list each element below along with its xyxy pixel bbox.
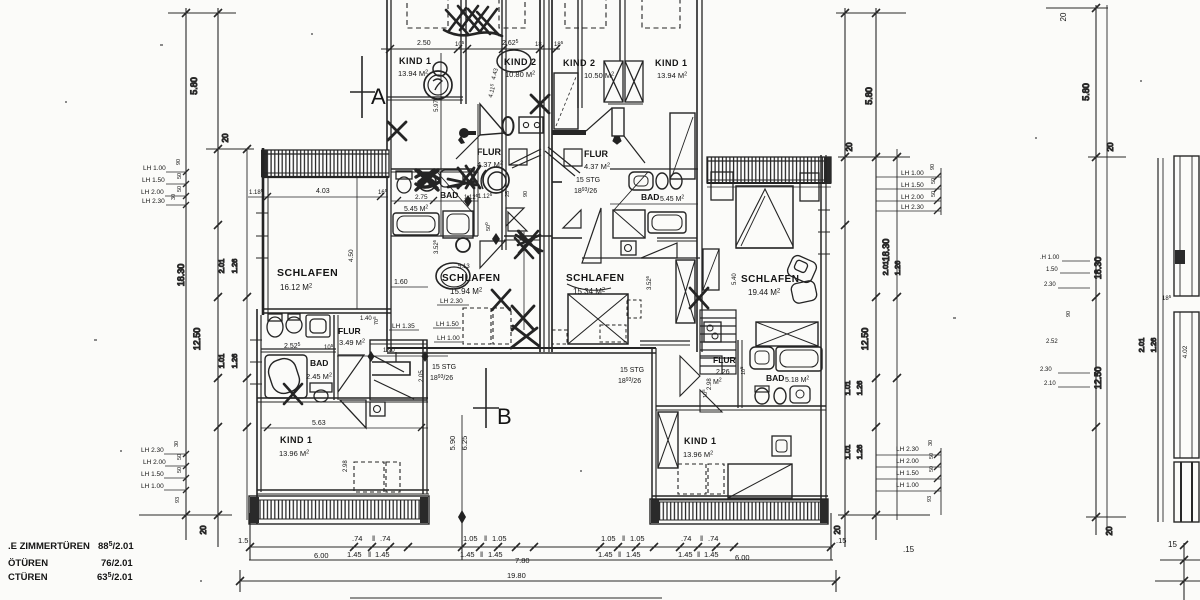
svg-text:50: 50 bbox=[177, 186, 183, 192]
svg-text:93: 93 bbox=[927, 496, 933, 502]
svg-text:2.05: 2.05 bbox=[419, 370, 425, 382]
label 15 STG left bbox=[430, 364, 456, 382]
dim line 1.60 bbox=[391, 286, 428, 288]
svg-text:50: 50 bbox=[177, 467, 183, 473]
svg-text:1.60: 1.60 bbox=[394, 279, 408, 286]
small cabinet w circle bbox=[621, 241, 636, 255]
dim line row 3 (19.80) bbox=[240, 580, 836, 582]
KIND1 bottom-left labels bbox=[279, 435, 313, 458]
stair right unit bbox=[700, 310, 736, 374]
svg-text:FLUR: FLUR bbox=[713, 355, 736, 365]
svg-text:105: 105 bbox=[455, 40, 465, 48]
mid tick crosses bbox=[214, 221, 251, 431]
wall y170 right bad bbox=[610, 168, 698, 170]
svg-text:BAD: BAD bbox=[440, 190, 458, 200]
svg-text:12.50: 12.50 bbox=[860, 328, 870, 351]
wall stairwell inner right bbox=[577, 0, 579, 108]
svg-text:FLUR: FLUR bbox=[584, 149, 608, 159]
label FLUR right bbox=[574, 149, 610, 195]
right wall KIND1 bl bbox=[422, 340, 424, 494]
tick crosses top bbox=[182, 9, 222, 17]
svg-text:1.125: 1.125 bbox=[478, 192, 493, 200]
wall fragment right edge: thin double vline bbox=[1157, 158, 1159, 522]
svg-text:SCHLAFEN: SCHLAFEN bbox=[442, 273, 500, 284]
circle fixture below bbox=[456, 238, 470, 252]
toilet bbox=[267, 317, 283, 337]
svg-text:705: 705 bbox=[372, 316, 380, 325]
svg-text:5.80: 5.80 bbox=[1081, 83, 1091, 101]
dashed bed KIND1 bl bbox=[354, 462, 400, 492]
svg-text:LH 2.30: LH 2.30 bbox=[896, 446, 919, 453]
door triangle into schlafen right bbox=[582, 208, 601, 263]
svg-text:1.05: 1.05 bbox=[601, 534, 616, 543]
svg-text:‖: ‖ bbox=[484, 534, 487, 543]
svg-text:4.02: 4.02 bbox=[1182, 345, 1189, 358]
bed 15.34 with X bbox=[568, 294, 628, 344]
horizontal wall stub right bbox=[608, 103, 643, 105]
dim line vertical 2 bbox=[875, 8, 877, 540]
labels below row1 bbox=[314, 550, 750, 580]
svg-text:BAD: BAD bbox=[766, 373, 784, 383]
left wall lower bbox=[256, 309, 258, 524]
svg-text:.74: .74 bbox=[708, 534, 718, 543]
svg-text:BAD: BAD bbox=[310, 358, 328, 368]
svg-text:2.45 M2: 2.45 M2 bbox=[306, 372, 332, 381]
svg-text:12.50: 12.50 bbox=[192, 328, 202, 351]
svg-text:LH 2.00: LH 2.00 bbox=[141, 189, 164, 196]
svg-text:3.49 M2: 3.49 M2 bbox=[339, 338, 365, 347]
label BAD 2.45 bbox=[306, 358, 332, 381]
balcony top-left railing bbox=[261, 150, 389, 177]
tick crosses row1 bbox=[246, 543, 835, 551]
dark knob bbox=[459, 128, 469, 138]
dashed bed 15.94 bbox=[463, 308, 511, 344]
svg-text:50: 50 bbox=[177, 173, 183, 179]
svg-text:1.45: 1.45 bbox=[488, 550, 503, 559]
interior dim line y197 bbox=[248, 196, 388, 198]
svg-text:76/2.01: 76/2.01 bbox=[101, 558, 133, 569]
door triangle right corridor bbox=[641, 243, 677, 258]
labels BAD right bbox=[641, 192, 684, 203]
svg-text:1.45: 1.45 bbox=[460, 550, 475, 559]
dim line row 4 partial bbox=[350, 597, 662, 599]
basin right bad bbox=[629, 172, 653, 190]
wall x740 between flur and bad bbox=[737, 340, 739, 408]
svg-text:.15: .15 bbox=[836, 536, 846, 545]
wall bad left top y170 bbox=[391, 168, 475, 170]
round basin bbox=[286, 317, 302, 333]
svg-text:KIND 1: KIND 1 bbox=[399, 56, 432, 66]
MAIN PLAN bbox=[248, 0, 831, 524]
scribble ellipse around SCH bbox=[436, 263, 470, 289]
vertical dim 5.90 6.25 with diamond bbox=[461, 415, 463, 513]
svg-text:LH 2.00: LH 2.00 bbox=[896, 458, 919, 465]
svg-text:B: B bbox=[497, 404, 512, 429]
right wall schlafen 19.44 bbox=[820, 155, 822, 352]
wall between bad and stairs x336 bbox=[333, 315, 335, 400]
svg-text:1.45: 1.45 bbox=[347, 550, 362, 559]
svg-text:BAD: BAD bbox=[641, 192, 659, 202]
basin bbox=[440, 170, 463, 187]
wall fragment: lower box bbox=[1174, 462, 1199, 522]
svg-text:.74: .74 bbox=[681, 534, 691, 543]
svg-text:18.30: 18.30 bbox=[1093, 257, 1103, 280]
svg-text:1.40: 1.40 bbox=[360, 316, 372, 322]
svg-text:5.80: 5.80 bbox=[189, 77, 199, 95]
svg-text:1.26: 1.26 bbox=[855, 381, 864, 396]
svg-text:KIND 1: KIND 1 bbox=[684, 436, 717, 446]
interior vertical dim 4.50 bbox=[356, 178, 358, 309]
svg-text:13.96 M2: 13.96 M2 bbox=[683, 450, 713, 459]
tub bad 5.18 bbox=[776, 347, 822, 371]
window ticks right wall bbox=[818, 210, 830, 254]
section mark B bbox=[485, 368, 487, 428]
svg-text:2.30: 2.30 bbox=[1044, 282, 1056, 288]
svg-text:15 STG: 15 STG bbox=[432, 364, 456, 371]
X mark on left wall bbox=[388, 122, 406, 140]
svg-text:LH 1.50: LH 1.50 bbox=[436, 321, 459, 328]
X mark left low wall bbox=[284, 384, 302, 404]
svg-text:1893/26: 1893/26 bbox=[618, 377, 641, 385]
svg-text:2.01: 2.01 bbox=[217, 259, 226, 274]
left wall schlafen16 bbox=[262, 148, 265, 315]
svg-text:20: 20 bbox=[833, 525, 842, 534]
dark scribble blob bbox=[416, 170, 439, 190]
svg-text:FLUR: FLUR bbox=[477, 147, 501, 157]
squiggle circle flur left bbox=[483, 167, 509, 193]
svg-text:1.26: 1.26 bbox=[1149, 338, 1158, 353]
bottom wall right unit bbox=[652, 495, 828, 497]
svg-text:2.625: 2.625 bbox=[502, 39, 519, 47]
svg-text:LH 2.30: LH 2.30 bbox=[141, 447, 164, 454]
svg-text:2.01: 2.01 bbox=[1137, 338, 1146, 353]
top tick line bbox=[168, 12, 236, 14]
right wall KIND1 br bbox=[820, 352, 822, 500]
label 15 STG center bottom bbox=[618, 367, 644, 385]
svg-text:1.50: 1.50 bbox=[1046, 267, 1058, 273]
LEFT DIMENSION COLUMN bbox=[139, 8, 254, 547]
BAD toilet bbox=[310, 383, 332, 402]
svg-text:2.98: 2.98 bbox=[343, 460, 349, 472]
door leaf flur right bbox=[612, 108, 624, 136]
svg-text:5.45 M2: 5.45 M2 bbox=[660, 195, 684, 204]
wall fragment: middle box bbox=[1174, 312, 1199, 458]
svg-text:1.26: 1.26 bbox=[855, 445, 864, 460]
svg-text:30: 30 bbox=[928, 440, 934, 446]
bathtub left bbox=[393, 213, 439, 235]
svg-text:1.26: 1.26 bbox=[893, 261, 902, 276]
section mark A bbox=[361, 56, 363, 118]
svg-text:KIND 1: KIND 1 bbox=[655, 58, 688, 68]
svg-text:15 STG: 15 STG bbox=[620, 367, 644, 374]
svg-text:90: 90 bbox=[1066, 311, 1072, 317]
svg-text:5.80: 5.80 bbox=[864, 87, 874, 105]
svg-text:.74: .74 bbox=[352, 534, 362, 543]
balcony top-right railing bbox=[707, 157, 831, 184]
svg-text:1.26: 1.26 bbox=[230, 259, 239, 274]
wall y258 under right bad bbox=[582, 257, 700, 259]
svg-text:19.44 M2: 19.44 M2 bbox=[748, 288, 781, 297]
wardrobe with X in right corridor bbox=[676, 260, 695, 323]
step shape left flur bbox=[509, 149, 541, 168]
svg-text:25: 25 bbox=[505, 191, 511, 197]
dim vline x524 bbox=[523, 232, 525, 330]
dim line row 1 bbox=[249, 546, 833, 548]
left wall lower right unit bbox=[651, 348, 653, 500]
svg-text:LH 1.50: LH 1.50 bbox=[901, 182, 924, 189]
svg-text:1.45: 1.45 bbox=[598, 550, 613, 559]
LH small group far bbox=[1040, 255, 1060, 387]
svg-text:LH 2.00: LH 2.00 bbox=[143, 459, 166, 466]
wall stair left unit bbox=[460, 0, 462, 104]
toilet pair bad 5.18 bbox=[755, 388, 769, 404]
svg-text:1.01: 1.01 bbox=[843, 381, 852, 396]
svg-text:ÖTÜREN: ÖTÜREN bbox=[8, 558, 48, 569]
LH group bottom right bbox=[896, 440, 935, 502]
labels BAD 5.45 left bbox=[404, 190, 479, 213]
RIGHT DIMENSION COLUMN bbox=[833, 8, 941, 554]
bed 19.44 with pillow triangle bbox=[736, 186, 793, 248]
svg-text:6.25: 6.25 bbox=[460, 436, 469, 451]
skylight 1 bbox=[407, 0, 448, 28]
label FLUR 3.49 bbox=[338, 316, 380, 347]
door panel rect right unit bbox=[670, 113, 695, 179]
wall fragment: upper box bbox=[1174, 156, 1199, 296]
step shape right flur bbox=[545, 147, 582, 176]
bottom tick line at 515 bbox=[139, 514, 232, 516]
svg-text:SCHLAFEN: SCHLAFEN bbox=[277, 267, 338, 279]
label KIND1 br bbox=[683, 378, 717, 459]
bottom tick line right bbox=[838, 514, 930, 516]
svg-text:2.50: 2.50 bbox=[417, 40, 431, 47]
scribble circle around KIND2 left bbox=[497, 50, 531, 72]
party wall bbox=[539, 0, 541, 352]
labels SCHLAFEN 19.44 bbox=[732, 273, 799, 297]
svg-text:‖: ‖ bbox=[480, 550, 483, 559]
LH underline rules bbox=[389, 305, 469, 342]
svg-text:.H 1.00: .H 1.00 bbox=[1040, 255, 1060, 261]
balcony bottom-right bbox=[650, 499, 828, 524]
svg-text:500: 500 bbox=[484, 222, 492, 231]
tub right bad bbox=[648, 212, 686, 233]
svg-text:105: 105 bbox=[324, 343, 334, 351]
basin bad 5.18 bbox=[750, 347, 774, 369]
svg-text:LH 1.00: LH 1.00 bbox=[143, 165, 166, 172]
svg-text:‖: ‖ bbox=[368, 550, 371, 559]
balcony bottom-left bbox=[249, 496, 429, 524]
switch panel rect bbox=[519, 117, 543, 133]
svg-text:LH 1.00: LH 1.00 bbox=[901, 170, 924, 177]
door triangle into schlafen 15.94 bbox=[480, 241, 505, 268]
svg-text:KIND 2: KIND 2 bbox=[563, 58, 596, 68]
wall wardrobe right unit bbox=[619, 0, 621, 61]
far right long vline pair bbox=[1095, 5, 1097, 535]
svg-text:1.01: 1.01 bbox=[217, 354, 226, 369]
svg-text:4.03: 4.03 bbox=[316, 188, 330, 195]
tick crosses row3 bbox=[236, 577, 840, 585]
interior dim right room bbox=[707, 186, 831, 188]
svg-text:LH 2.30: LH 2.30 bbox=[901, 204, 924, 211]
svg-text:13.96 M2: 13.96 M2 bbox=[279, 449, 309, 458]
svg-text:635/2.01: 635/2.01 bbox=[97, 572, 133, 583]
door swing diagonal bad left bbox=[437, 172, 472, 212]
svg-text:1.45: 1.45 bbox=[375, 550, 390, 559]
table with chair bbox=[772, 436, 791, 456]
svg-text:‖: ‖ bbox=[700, 534, 703, 543]
svg-text:1893/26: 1893/26 bbox=[430, 374, 453, 382]
wardrobe X boxes right unit bbox=[604, 61, 643, 102]
svg-text:LH 2.30: LH 2.30 bbox=[142, 198, 165, 205]
svg-text:2.98: 2.98 bbox=[707, 378, 713, 390]
svg-text:12.50: 12.50 bbox=[1093, 367, 1103, 390]
svg-text:CTÜREN: CTÜREN bbox=[8, 572, 48, 583]
X scribbles top center bbox=[444, 6, 502, 36]
dim line vertical 3 bbox=[896, 149, 898, 520]
label FLUR 2.26 bbox=[701, 355, 747, 398]
svg-text:LH 1.50: LH 1.50 bbox=[142, 177, 165, 184]
label FLUR left bbox=[477, 147, 503, 169]
door triangles flur bl bbox=[338, 355, 364, 392]
svg-text:1.05: 1.05 bbox=[630, 534, 645, 543]
svg-text:90: 90 bbox=[523, 191, 529, 197]
svg-text:20: 20 bbox=[1105, 526, 1114, 535]
interior dim line KIND1 left bbox=[440, 53, 442, 236]
top tick line bbox=[836, 12, 906, 14]
svg-text:185: 185 bbox=[1162, 294, 1172, 302]
X mark near party wall top bbox=[531, 95, 549, 113]
svg-text:1.05: 1.05 bbox=[463, 534, 478, 543]
svg-text:LH 1.00: LH 1.00 bbox=[141, 483, 164, 490]
door panel rect KIND2 right bbox=[554, 73, 578, 129]
ellipse fixture bbox=[503, 117, 514, 135]
svg-text:13.94 M2: 13.94 M2 bbox=[398, 69, 428, 78]
single bed with diagonal bbox=[728, 464, 792, 498]
svg-text:KIND 1: KIND 1 bbox=[280, 435, 313, 445]
svg-text:1.45: 1.45 bbox=[704, 550, 719, 559]
skylight 4 bbox=[642, 0, 680, 28]
labels above row1 bbox=[238, 534, 846, 545]
svg-text:18.30: 18.30 bbox=[881, 239, 891, 262]
svg-text:LH 1.00: LH 1.00 bbox=[437, 335, 460, 342]
mid tick crosses bbox=[841, 221, 901, 431]
label BAD 5.18 bbox=[766, 373, 809, 384]
svg-text:FLUR: FLUR bbox=[338, 326, 361, 336]
kitchen stub right bbox=[700, 356, 722, 374]
dim line y204 right bbox=[610, 203, 698, 205]
wall stub right of party wall bbox=[552, 181, 562, 183]
basin2 bad 5.18 bbox=[790, 386, 810, 403]
stove right room bbox=[704, 322, 721, 342]
window ticks left lower bbox=[250, 340, 262, 384]
svg-text:‖: ‖ bbox=[372, 534, 375, 543]
BAD 2.45 tub bbox=[265, 355, 307, 398]
black diamond tick bbox=[492, 233, 500, 245]
svg-text:5.63: 5.63 bbox=[312, 420, 326, 427]
skylight 3 bbox=[565, 0, 606, 28]
fixtures row below schlafen16 (flur 3.49 zone) bbox=[267, 314, 330, 337]
svg-text:2.01: 2.01 bbox=[881, 261, 890, 276]
BAD 5.45 fixtures top row bbox=[396, 166, 480, 193]
wall y400 left unit bbox=[257, 397, 428, 399]
svg-text:1.01: 1.01 bbox=[843, 445, 852, 460]
svg-text:2.26: 2.26 bbox=[716, 369, 730, 376]
svg-text:SCHLAFEN: SCHLAFEN bbox=[566, 273, 624, 284]
svg-text:.15: .15 bbox=[903, 545, 915, 554]
wall stub above wardrobe bbox=[657, 237, 697, 239]
wall stairwell inner left bbox=[501, 0, 503, 250]
small square with circle under stairs bbox=[370, 402, 385, 416]
svg-text:.E ZIMMERTÜREN: .E ZIMMERTÜREN bbox=[8, 541, 90, 552]
toilet right bad bbox=[656, 173, 668, 189]
wall y236 under bad bbox=[391, 235, 478, 237]
svg-text:90: 90 bbox=[176, 159, 182, 165]
right corridor: corner brackets bbox=[563, 210, 581, 228]
TEXT BLOCK bottom left bbox=[8, 541, 134, 583]
svg-text:93: 93 bbox=[175, 497, 181, 503]
svg-text:5.45 M2: 5.45 M2 bbox=[404, 205, 428, 214]
scribble circle KIND1 left bbox=[433, 62, 447, 76]
svg-text:15: 15 bbox=[1168, 540, 1177, 549]
ticks far mid bbox=[1092, 293, 1100, 431]
svg-text:1.05: 1.05 bbox=[492, 534, 507, 543]
LH group top right bbox=[901, 164, 937, 211]
svg-text:20: 20 bbox=[199, 525, 208, 534]
interior dim 5.63 bbox=[261, 427, 428, 429]
dashed bed KIND1 br bbox=[678, 464, 724, 494]
svg-text:2.30: 2.30 bbox=[1040, 367, 1052, 373]
connectors to plan bbox=[249, 513, 251, 560]
label SCHLAFEN 16.12 bbox=[277, 267, 338, 292]
X scribble center bbox=[516, 231, 542, 253]
FAR RIGHT COLUMN bbox=[1040, 4, 1200, 600]
skylight 2 bbox=[499, 0, 525, 28]
svg-text:50: 50 bbox=[177, 454, 183, 460]
wall y343 right corridor bbox=[640, 340, 690, 342]
svg-text:20: 20 bbox=[1059, 12, 1068, 21]
svg-text:16.12 M2: 16.12 M2 bbox=[280, 283, 313, 292]
door triangles flur 2.26 bbox=[680, 356, 700, 396]
svg-text:20: 20 bbox=[1106, 142, 1115, 151]
dim line 5.80/18.30 vertical bbox=[185, 8, 187, 540]
svg-text:19.80: 19.80 bbox=[507, 571, 526, 580]
shower right bad bbox=[613, 210, 645, 238]
svg-text:20: 20 bbox=[845, 142, 854, 151]
LH group bottom bbox=[141, 441, 183, 503]
top short line with 20 bbox=[1046, 7, 1108, 9]
tick line at 149 bbox=[206, 148, 254, 150]
svg-text:A: A bbox=[371, 84, 386, 109]
X mark left center bbox=[492, 290, 510, 310]
dim line 1.26 vertical bbox=[246, 149, 248, 520]
LH group top bbox=[141, 159, 183, 205]
svg-text:5.97: 5.97 bbox=[434, 100, 440, 112]
svg-text:4.50: 4.50 bbox=[348, 249, 355, 262]
svg-text:105: 105 bbox=[739, 366, 747, 375]
stairs bottom-left unit (Z-landing) bbox=[370, 340, 427, 400]
top dimension line bbox=[381, 48, 560, 50]
svg-text:1893/26: 1893/26 bbox=[574, 187, 597, 195]
svg-text:‖: ‖ bbox=[618, 550, 621, 559]
svg-text:LH 1.50: LH 1.50 bbox=[141, 471, 164, 478]
wall x476 flur/bad bbox=[473, 169, 475, 236]
svg-text:885/2.01: 885/2.01 bbox=[98, 541, 134, 552]
svg-text:90: 90 bbox=[930, 164, 936, 170]
svg-text:LH 2.30: LH 2.30 bbox=[440, 298, 463, 305]
svg-text:LH 2.00: LH 2.00 bbox=[901, 194, 924, 201]
svg-text:M2: M2 bbox=[713, 378, 722, 387]
svg-text:13.94 M2: 13.94 M2 bbox=[657, 71, 687, 80]
corner brackets left bbox=[506, 208, 524, 226]
